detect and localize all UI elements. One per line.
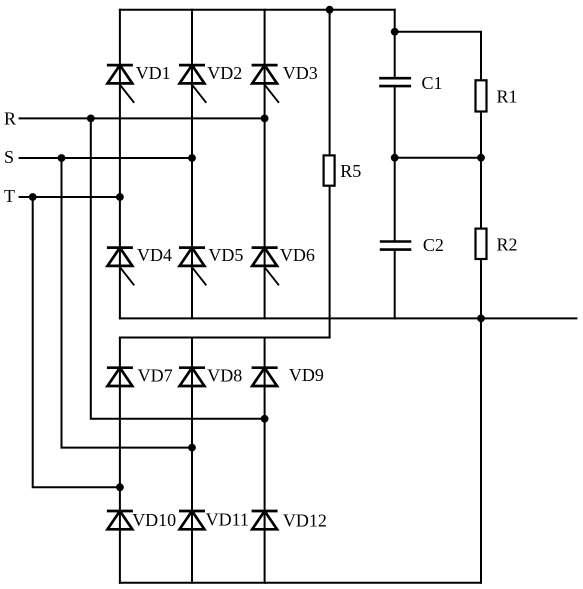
wire bottom bridge top rail [120, 337, 330, 339]
svg-text:VD2: VD2 [207, 63, 242, 83]
junction top rail / R5 [326, 6, 334, 14]
diode VD7 [107, 368, 133, 386]
wire VD8 column (bottom bridge) [191, 338, 193, 583]
junction S line / VD2 column [188, 154, 196, 162]
thyristor VD3 [252, 65, 279, 103]
svg-text:T: T [4, 186, 15, 206]
wire C column middle segment [394, 87, 396, 240]
svg-text:VD12: VD12 [283, 511, 327, 531]
wire phase R line [20, 117, 265, 119]
wire VD9 column (bottom bridge) [264, 338, 266, 583]
capacitor C2 [380, 242, 412, 250]
thyristor VD1 [107, 65, 134, 103]
svg-text:VD8: VD8 [207, 365, 242, 385]
junction C column / R1 branch [391, 28, 399, 36]
wire DC output rail [120, 317, 577, 319]
wire R5 column [329, 10, 331, 338]
resistor R5 [324, 155, 335, 185]
svg-text:C2: C2 [423, 235, 444, 255]
wire phase T down branch [33, 197, 120, 487]
junction T line / VD1 column [116, 193, 124, 201]
wire phase R down branch [91, 118, 265, 418]
svg-text:VD9: VD9 [289, 365, 324, 385]
junction R line / R down branch [87, 115, 95, 123]
thyristor VD6 [252, 248, 279, 286]
junction middle node / R1-R2 column [477, 154, 485, 162]
wire phase S down branch [62, 158, 193, 448]
svg-text:S: S [4, 147, 14, 167]
resistor R2 [476, 229, 487, 259]
diode VD10 [107, 511, 133, 529]
junction R lower / VD9 column [261, 415, 269, 423]
wire phase T line [20, 196, 120, 198]
junction T lower / VD7 column [116, 483, 124, 491]
junction DC rail / R1-R2 column [477, 315, 485, 323]
thyristor VD2 [179, 65, 206, 103]
svg-text:C1: C1 [422, 73, 443, 93]
thyristor VD4 [107, 248, 134, 286]
wire bottom rail [120, 582, 481, 584]
thyristor VD5 [179, 248, 206, 286]
wire C column upper segment [394, 10, 396, 77]
svg-text:VD7: VD7 [138, 365, 173, 385]
svg-text:VD3: VD3 [283, 63, 318, 83]
svg-text:VD11: VD11 [206, 510, 249, 530]
diode VD12 [252, 511, 278, 529]
wire VD3 column (top bridge) [264, 10, 266, 319]
junction S line / S down branch [58, 154, 66, 162]
wire top rail [120, 9, 395, 11]
wire R1 top branch [395, 32, 481, 81]
svg-text:R5: R5 [340, 161, 361, 181]
svg-text:R: R [4, 109, 16, 129]
svg-text:VD5: VD5 [208, 245, 243, 265]
svg-text:R2: R2 [497, 235, 518, 255]
wire phase S line [20, 157, 192, 159]
junction R line / VD3 column [261, 115, 269, 123]
junction T line / T down branch [29, 193, 37, 201]
capacitor C1 [379, 78, 411, 86]
svg-text:VD4: VD4 [137, 245, 172, 265]
wire middle node C to R [395, 157, 481, 159]
diode VD8 [179, 368, 205, 386]
wire C column lower segment [394, 251, 396, 318]
wire VD7 column (bottom bridge) [119, 338, 121, 583]
wire VD2 column (top bridge) [191, 10, 193, 319]
svg-text:R1: R1 [497, 87, 518, 107]
svg-text:VD6: VD6 [280, 245, 315, 265]
wire R1-R2 column [480, 80, 482, 583]
diode VD11 [179, 511, 205, 529]
svg-text:VD10: VD10 [132, 510, 176, 530]
wire VD1 column (top bridge) [119, 10, 121, 319]
resistor R1 [476, 80, 487, 111]
junction S lower / VD8 column [188, 444, 196, 452]
svg-text:VD1: VD1 [136, 63, 171, 83]
junction middle node / C column [391, 154, 399, 162]
diode VD9 [252, 368, 278, 386]
